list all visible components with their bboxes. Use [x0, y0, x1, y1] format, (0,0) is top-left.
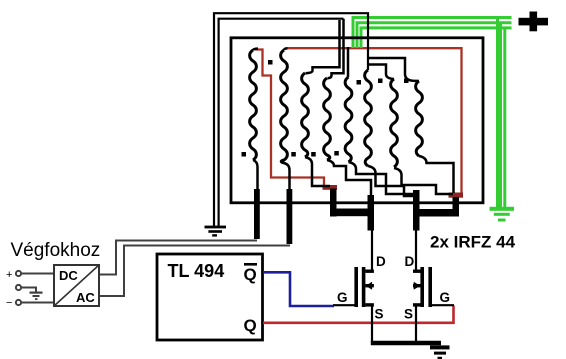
svg-text:G: G: [337, 290, 348, 305]
svg-text:Q: Q: [244, 265, 257, 284]
svg-text:D: D: [405, 254, 415, 269]
svg-text:AC: AC: [76, 290, 95, 305]
svg-text:Q: Q: [244, 316, 257, 335]
svg-text:D: D: [376, 254, 386, 269]
svg-text:S: S: [375, 307, 384, 322]
svg-text:−: −: [6, 297, 12, 309]
svg-text:S: S: [404, 307, 413, 322]
svg-text:+: +: [6, 269, 12, 281]
svg-text:Végfokhoz: Végfokhoz: [11, 240, 101, 261]
svg-text:TL 494: TL 494: [168, 261, 225, 281]
svg-text:2x IRFZ 44: 2x IRFZ 44: [430, 233, 516, 252]
svg-text:G: G: [440, 290, 451, 305]
svg-text:DC: DC: [59, 268, 78, 283]
